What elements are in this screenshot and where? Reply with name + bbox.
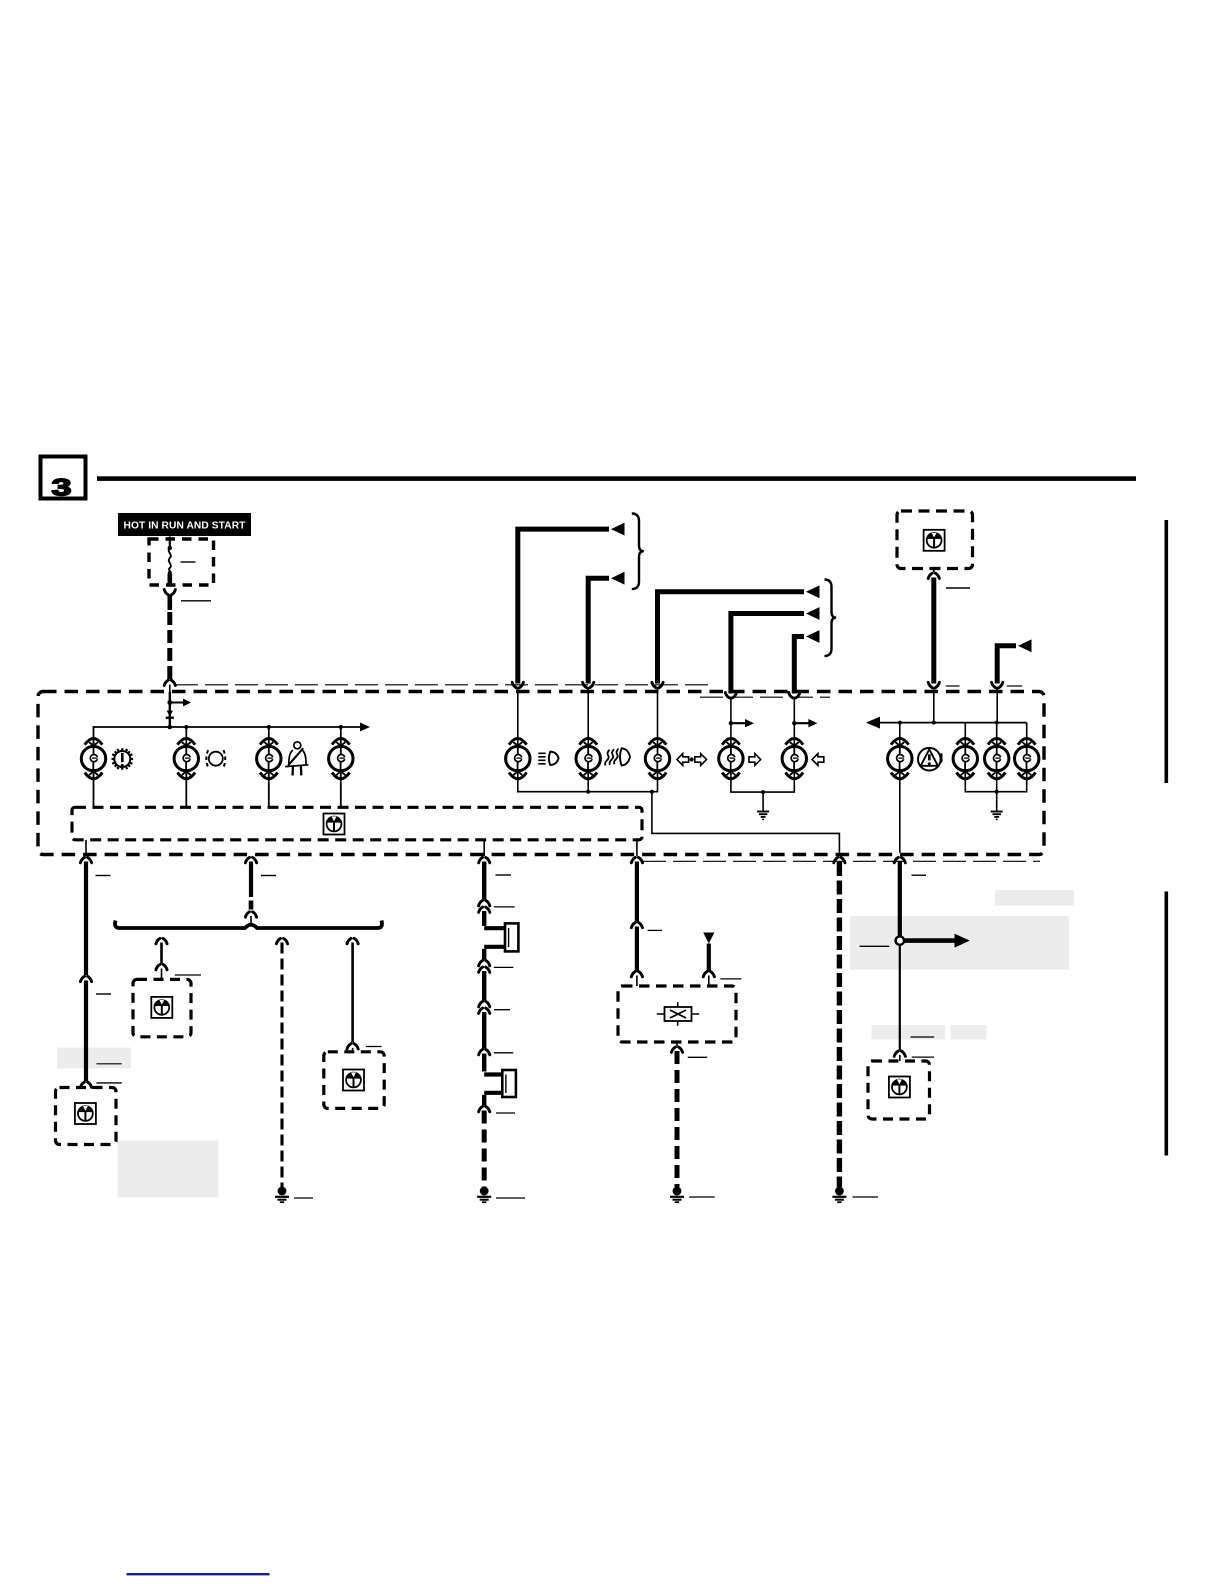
splice bar S1: [115, 921, 382, 929]
lamp L8 (right turn indicator): [719, 738, 743, 778]
wire F: L10 lead with branch arrow: [860, 857, 970, 1061]
wire: lamp L1 to ground bus: [93, 769, 95, 808]
header rule: [97, 476, 1136, 481]
connector H1 (dashed box): [56, 1088, 117, 1145]
icon: warning triangle symbol: [918, 748, 942, 771]
icon: hazard arrows symbol: [677, 754, 707, 766]
ground G201: [477, 1187, 491, 1203]
wire WG: G1 down to cluster: [928, 569, 970, 723]
lamp L5 (high beam indicator): [506, 738, 530, 778]
wire: lamp L4 to ground bus: [340, 769, 342, 808]
lamp L9 (left turn indicator): [782, 738, 806, 778]
wire: lamp L2 feed: [185, 740, 187, 748]
connector pin guide lines: [175, 684, 710, 686]
brace (connector group W5/W6): [632, 514, 644, 590]
ground symbol icon in H1: [75, 1103, 96, 1124]
wire: lamp L2 to ground bus: [185, 769, 187, 808]
ground: cluster internal (L11-L13): [991, 812, 1003, 820]
redacted text blocks (grey): [57, 890, 1074, 1198]
wire: L5-L7 return to exit E: [652, 792, 840, 853]
lamp L13: [1014, 738, 1038, 778]
icon: brake warning symbol: [206, 750, 225, 767]
label dash: [689, 1196, 715, 1198]
page frame marker: section number box: [41, 457, 86, 501]
lamp L12: [985, 738, 1009, 778]
icon: right arrow symbol: [749, 754, 761, 766]
wire: L5-L7 return join: [518, 771, 658, 794]
wire: splice drop 1: [156, 938, 201, 979]
inline connector P2: [484, 1070, 516, 1106]
label dash: [294, 1197, 313, 1199]
svg-text:3: 3: [52, 474, 72, 501]
lamp L11: [953, 738, 977, 778]
ground: cluster internal (L8/L9): [757, 812, 769, 820]
wire W5 riser with off-page arrow: [512, 523, 624, 745]
connector G1 (dashed box, ground point top right): [897, 511, 973, 569]
lamp L3 (seat belt warning): [257, 738, 281, 778]
icon: brake wear symbol: [112, 748, 134, 770]
fuse F1 (dashed fuse box): [149, 537, 214, 587]
wire: antenna input to check module: [703, 933, 741, 987]
inline connector P1: [484, 923, 518, 959]
wire: splice drop 2 (to ground): [276, 938, 287, 1187]
ground symbol icon in bus: [324, 814, 345, 835]
lamp L2 (brake warning): [174, 738, 198, 778]
wire: fuse to cluster feed: [164, 590, 211, 728]
wire W9 riser with off-page arrow: [789, 630, 820, 745]
indicator lamp symbol in CB: [657, 1002, 699, 1026]
node: L9 tap with branch arrow: [792, 719, 817, 727]
wire W8 riser with off-page arrow: [725, 607, 819, 745]
wire: lamp L3 feed: [268, 740, 270, 748]
check control module CB (dashed box): [618, 986, 736, 1042]
ground symbol icon in G1: [924, 530, 945, 551]
label: HOT IN RUN AND START: [118, 513, 251, 536]
label dash: [853, 1196, 879, 1198]
wire C: cluster lead with inline connectors: [479, 840, 515, 926]
wire: check module to ground: [671, 1042, 707, 1187]
lamp L10 (brake warning triangle): [888, 738, 912, 778]
wire W7 riser with off-page arrow: [652, 585, 820, 745]
footer link line: [127, 1573, 270, 1575]
lamp L1 (brake wear indicator): [81, 738, 105, 778]
ground G200: [275, 1187, 289, 1203]
node: feed junction with branch arrow: [166, 692, 191, 729]
icon: fog lamp symbol: [605, 748, 630, 765]
ground symbol icon in H3: [343, 1070, 364, 1091]
icon: high beam symbol: [538, 752, 558, 765]
ground bus of cluster (inner dashed box): [72, 807, 642, 840]
wire B: cluster lead to splice bar: [245, 857, 276, 925]
wire: lamp L1 feed: [93, 740, 95, 748]
wire: far right riser with off-page arrow: [992, 639, 1032, 722]
icon: seat belt symbol: [285, 742, 308, 776]
ground symbol icon in H4: [889, 1077, 910, 1098]
wire: L8/L9 return join: [731, 771, 794, 811]
wire: lamp L3 to ground bus: [268, 769, 270, 808]
ground symbol icon in H2: [151, 997, 172, 1018]
connector H2 (dashed box): [133, 979, 191, 1036]
wire: splice drop 3: [347, 938, 382, 1051]
wire W6 riser with off-page arrow: [583, 572, 625, 745]
section edge bar (lower): [1165, 892, 1169, 1156]
brace (connector group W7/W8/W9): [825, 580, 837, 657]
instrument cluster (large dashed box): [38, 692, 1044, 855]
lamp L4: [329, 738, 353, 778]
wire: lamp supply bus (left group): [94, 723, 371, 745]
lamp L6 (fog lamp indicator): [576, 738, 600, 778]
label dash: [496, 1197, 525, 1199]
wire A: cluster ground lead (left): [80, 840, 121, 1087]
ground G202: [670, 1187, 684, 1203]
wire: lamp L4 feed: [340, 740, 342, 748]
ground G203: [832, 1187, 846, 1203]
node: L8 tap with branch arrow: [729, 719, 754, 727]
icon: left arrow symbol: [812, 754, 824, 766]
connector H3 (dashed box): [324, 1052, 384, 1109]
connector H4 (dashed box): [868, 1061, 930, 1119]
section edge bar (upper): [1165, 520, 1169, 783]
lamp L7 (hazard indicator): [645, 738, 669, 778]
wire: L11-L13 return join: [965, 771, 1026, 811]
wire: right lamp bus with arrow: [866, 717, 1027, 748]
wire D: cluster lead to check module: [631, 840, 662, 986]
wire E: L5-L7 return to ground: [834, 857, 845, 1187]
wire: L10 return to exit F: [899, 771, 901, 853]
svg-text:HOT IN RUN AND START: HOT IN RUN AND START: [124, 521, 247, 532]
